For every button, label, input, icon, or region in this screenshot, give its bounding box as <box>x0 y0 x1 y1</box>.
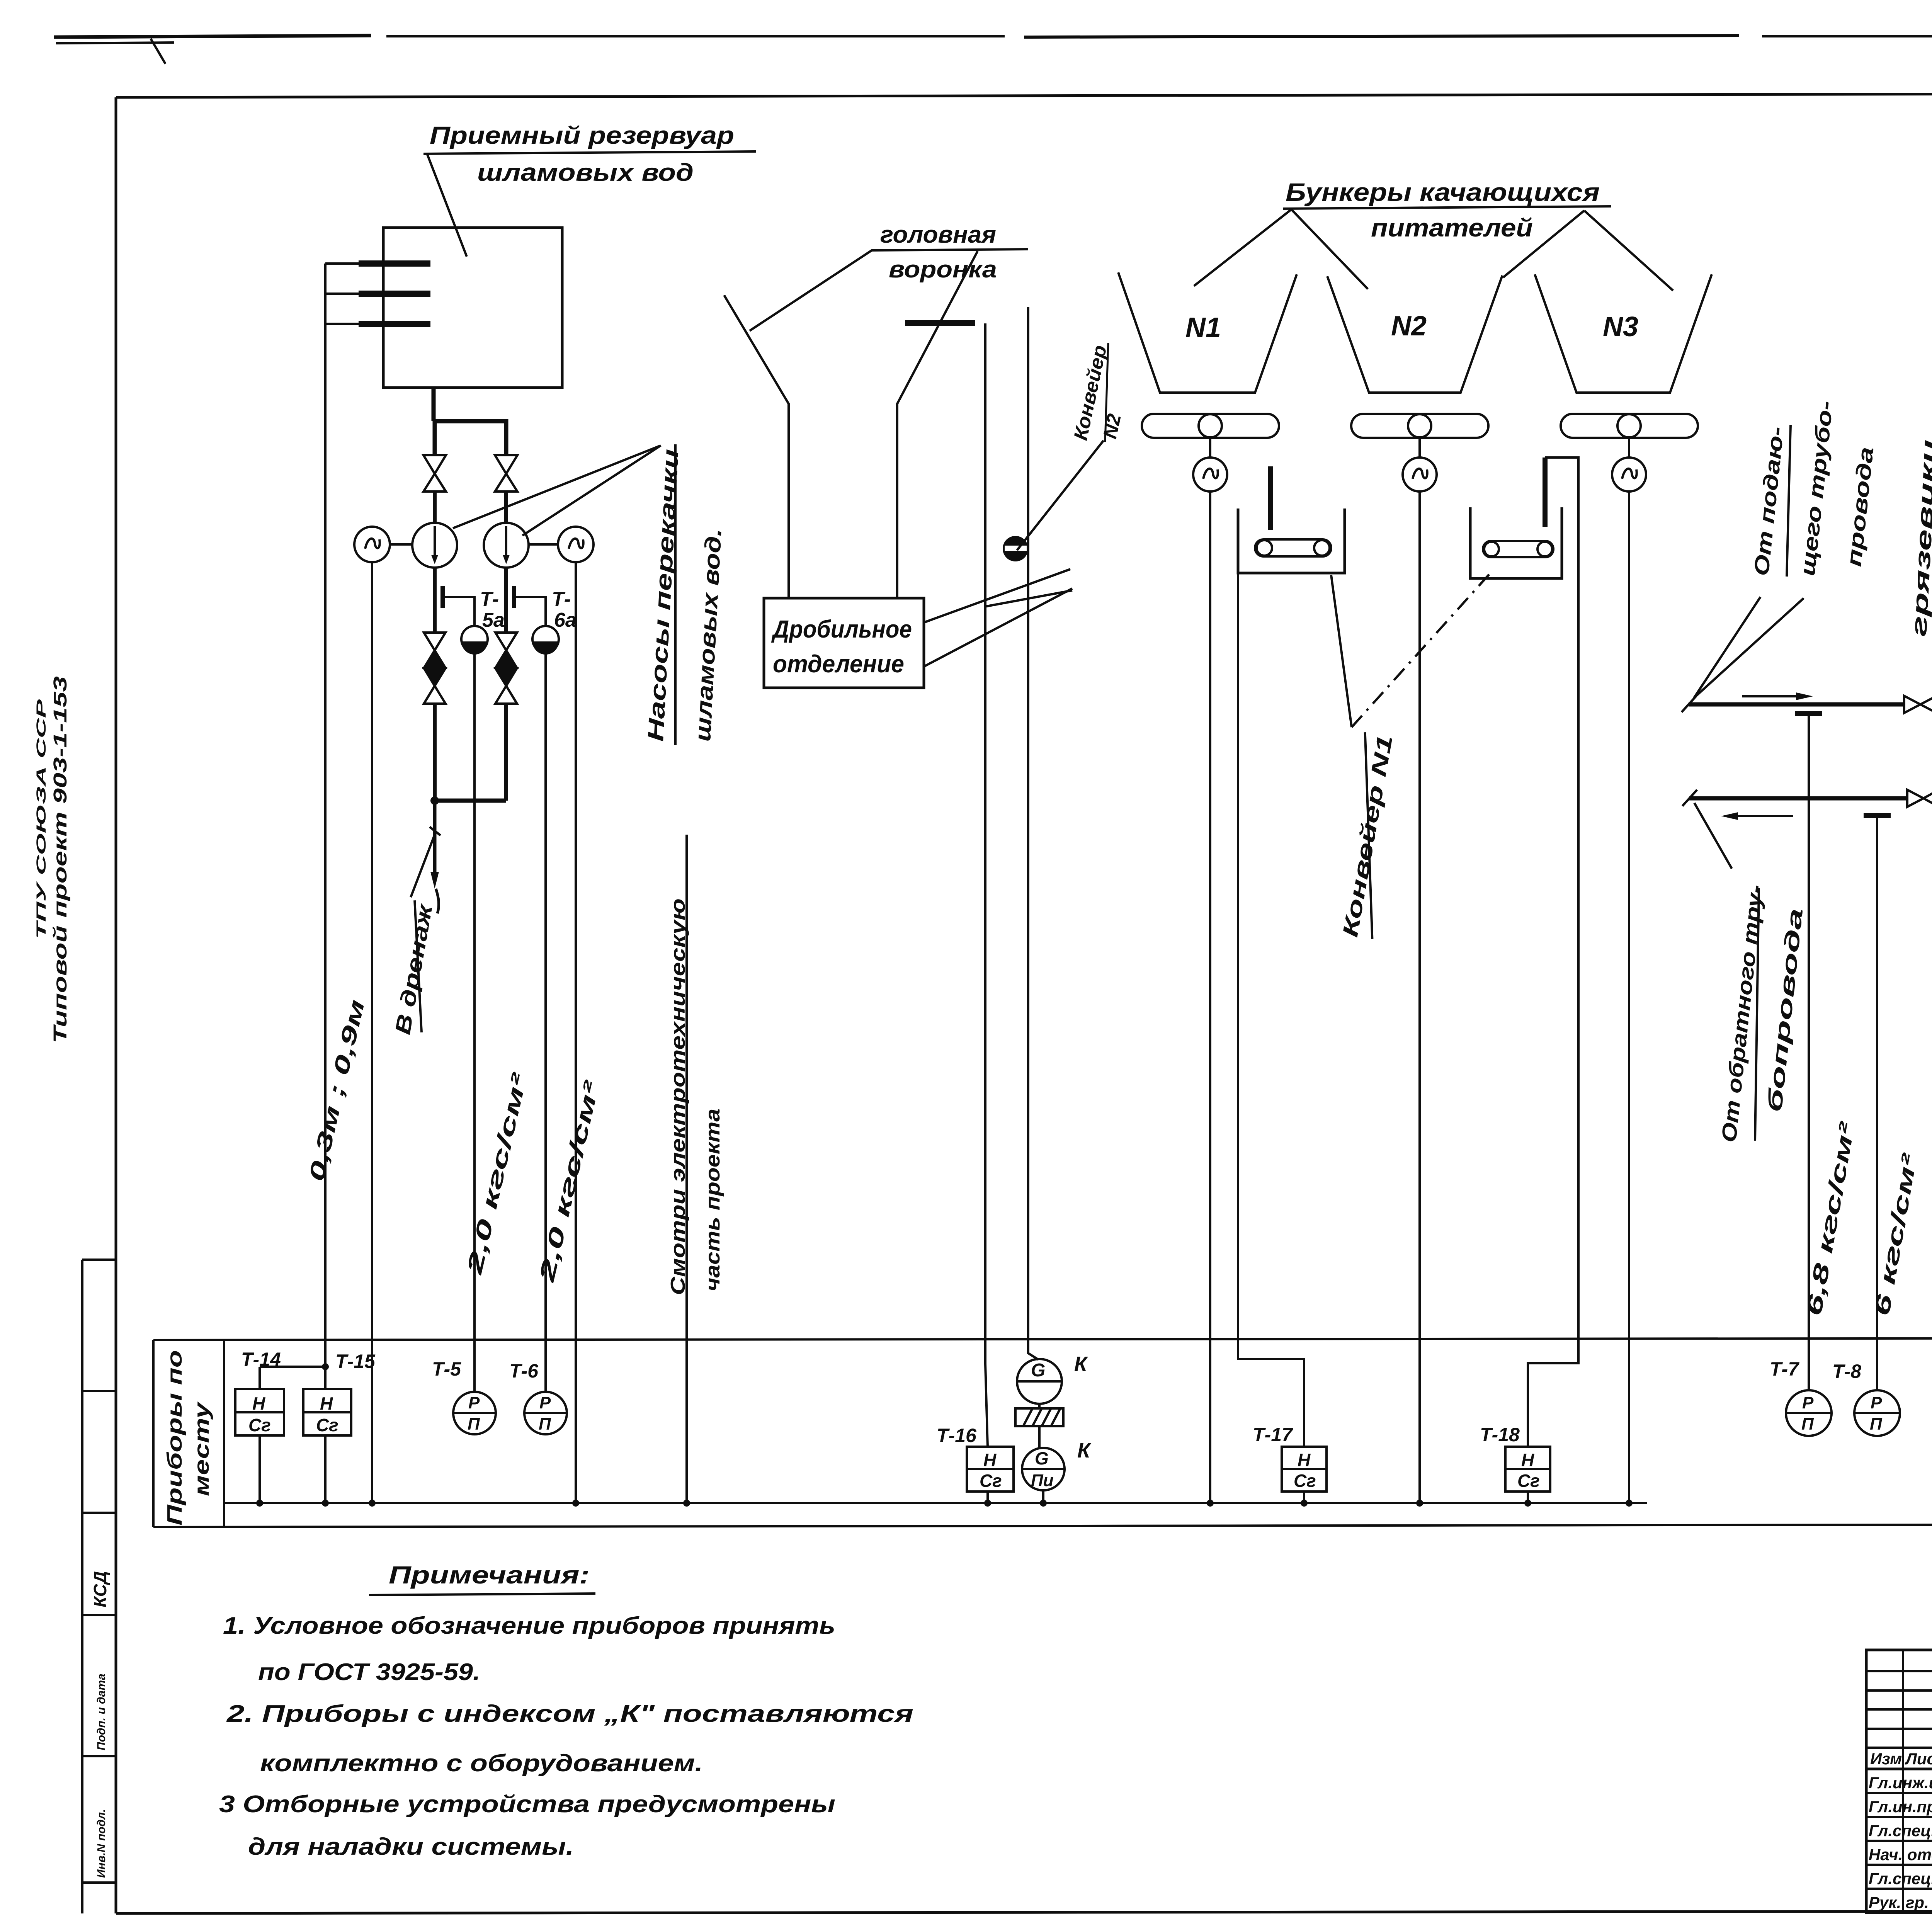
conveyor N1 leaders <box>1331 575 1352 727</box>
integrator hatch box <box>1015 1408 1063 1426</box>
svg-text:Н: Н <box>1521 1450 1534 1470</box>
level electrode bar 2 <box>359 291 430 297</box>
svg-text:П: П <box>468 1415 480 1434</box>
feeder 3 motor <box>1612 457 1646 492</box>
svg-text:Р: Р <box>539 1393 551 1412</box>
tap T-7 <box>1795 711 1822 716</box>
merge header <box>435 799 506 803</box>
svg-text:G: G <box>1035 1448 1049 1468</box>
belt weigher 2 signal line to T-18 <box>1528 457 1578 1447</box>
pressure bulb T-5a (half filled) <box>461 626 488 652</box>
svg-text:Т-8: Т-8 <box>1832 1361 1861 1382</box>
feeder 2 signal line <box>1418 492 1421 1503</box>
feeder 1 capsule <box>1142 414 1279 438</box>
label underline <box>674 444 677 745</box>
svg-text:для наладки системы.: для наладки системы. <box>248 1833 574 1860</box>
svg-text:G: G <box>1031 1360 1045 1381</box>
tap bar T-5a <box>440 586 445 608</box>
motor line bus dots <box>369 1500 376 1507</box>
svg-text:Т-7: Т-7 <box>1770 1358 1799 1380</box>
svg-text:Гл.инж.ик.: Гл.инж.ик. <box>1869 1774 1932 1792</box>
feeder 3 capsule <box>1561 414 1698 438</box>
gate valve supply main <box>1904 696 1932 713</box>
belt weigher 2 tank <box>1470 507 1562 578</box>
leader fan pumps <box>453 446 661 528</box>
svg-text:2. Приборы с индексом „: 2. Приборы с индексом „К" поставляются <box>226 1701 913 1727</box>
belt weigher 2 roller <box>1483 541 1553 557</box>
svg-text:Инв.N подл.: Инв.N подл. <box>95 1809 108 1878</box>
svg-text:Т-: Т- <box>480 588 499 611</box>
svg-text:Т-6: Т-6 <box>509 1360 539 1382</box>
tank outlet pipe <box>432 388 436 421</box>
motor M2 <box>558 527 594 562</box>
reservoir tank <box>383 228 562 388</box>
svg-text:К: К <box>1077 1439 1092 1462</box>
feeder 3 signal line <box>1628 492 1630 1503</box>
conveyor N2 chute line B <box>1028 307 1039 1360</box>
leader В дренаж <box>411 832 436 897</box>
svg-text:Т-5: Т-5 <box>432 1358 461 1380</box>
svg-text:Подп. и дата: Подп. и дата <box>95 1673 108 1750</box>
pipes valve to pumps <box>433 492 437 524</box>
bunker label leaders <box>1194 209 1673 291</box>
motor links <box>390 543 412 546</box>
supply start tick <box>1682 696 1696 712</box>
svg-text:Гл.спец.т.: Гл.спец.т. <box>1869 1821 1932 1840</box>
crusher leaders <box>924 569 1070 622</box>
belt weigher 1 drop bar <box>1268 466 1273 530</box>
motor signal lines to panel <box>371 562 373 1503</box>
tap T-8 <box>1864 813 1891 818</box>
tap bar T-6a <box>512 586 516 608</box>
svg-text:Сг: Сг <box>980 1471 1002 1491</box>
svg-text:П: П <box>539 1415 551 1434</box>
svg-text:Рук. гр.: Рук. гр. <box>1869 1893 1929 1912</box>
svg-text:Т-17: Т-17 <box>1253 1424 1293 1446</box>
svg-text:Дробильное: Дробильное <box>771 615 912 643</box>
junction dot <box>430 796 439 805</box>
drain pipe with arrow <box>433 801 437 876</box>
leader return label <box>1694 803 1732 869</box>
valve right suction <box>495 455 517 492</box>
svg-text:К: К <box>1074 1352 1088 1376</box>
left suction pipe <box>433 421 437 456</box>
feeder 2 capsule <box>1351 414 1488 438</box>
feeder bus dots <box>1207 1500 1214 1507</box>
signal bus <box>224 1502 1647 1504</box>
pump P1 <box>412 523 457 568</box>
svg-text:Т-14: Т-14 <box>241 1349 281 1370</box>
svg-text:1. Условное обозначение пр: 1. Условное обозначение приборов принять <box>223 1612 835 1639</box>
belt weigher 1 signal line to T-17 <box>1238 573 1304 1447</box>
svg-text:Н: Н <box>1298 1450 1311 1470</box>
svg-text:П: П <box>1870 1415 1883 1434</box>
svg-text:ТПУ СОЮЗА ССР: ТПУ СОЮЗА ССР <box>34 699 49 939</box>
label underline <box>423 151 756 154</box>
svg-text:Гл.спец.: Гл.спец. <box>1869 1869 1932 1888</box>
svg-text:Р: Р <box>468 1393 480 1412</box>
electro note line dot <box>683 1500 690 1507</box>
funnel walls <box>724 251 978 599</box>
feeder 1 motor <box>1193 457 1227 492</box>
svg-text:Н: Н <box>983 1450 997 1470</box>
crossing tick on drain <box>430 827 440 835</box>
valve left suction <box>423 455 446 492</box>
gate valve return main <box>1907 790 1932 807</box>
svg-text:Р: Р <box>1802 1393 1814 1412</box>
belt weigher 1 tank <box>1238 509 1345 573</box>
level electrode bar 1 <box>359 260 430 267</box>
return start tick <box>1682 790 1697 806</box>
feeder 2 motor <box>1403 457 1437 492</box>
svg-text:Н: Н <box>252 1393 265 1413</box>
svg-text:Сг: Сг <box>1517 1471 1540 1491</box>
pump P2 <box>484 523 529 568</box>
svg-text:Изм: Изм <box>1870 1750 1902 1768</box>
svg-text:Типовой проект 903-1-153: Типовой проект 903-1-153 <box>50 676 71 1043</box>
svg-text:N3: N3 <box>1603 311 1638 342</box>
svg-text:питателей: питателей <box>1371 213 1533 242</box>
svg-text:Приборы по: Приборы по <box>163 1350 186 1526</box>
return main <box>1689 796 1907 801</box>
svg-text:5а: 5а <box>482 609 505 631</box>
svg-text:Сг: Сг <box>316 1415 338 1435</box>
svg-text:Т-18: Т-18 <box>1480 1424 1520 1446</box>
pressure bulb T-6a (half filled) <box>532 626 559 652</box>
svg-text:N2: N2 <box>1391 311 1427 342</box>
svg-text:Т-: Т- <box>552 588 571 611</box>
belt weigher 1 roller <box>1255 539 1331 556</box>
discharge pipes to merge <box>433 704 437 801</box>
svg-text:отделение: отделение <box>773 650 904 678</box>
svg-text:воронка: воронка <box>889 256 997 283</box>
feeder 1 signal line <box>1209 492 1211 1503</box>
conveyor N2 chute line A <box>985 323 988 1447</box>
svg-text:Сг: Сг <box>1294 1471 1316 1491</box>
leaders supply label <box>1694 597 1760 698</box>
svg-text:по ГОСТ 3925-59.: по ГОСТ 3925-59. <box>258 1659 480 1685</box>
flow gate (black disc) on conveyor <box>1003 536 1028 561</box>
T-14 / T-15 connection <box>260 1366 325 1368</box>
bunker N1 <box>1118 272 1297 393</box>
svg-text:Гл.ин.пр.: Гл.ин.пр. <box>1869 1798 1932 1816</box>
svg-text:часть проекта: часть проекта <box>702 1109 724 1291</box>
svg-text:Лист: Лист <box>1905 1750 1932 1768</box>
svg-text:Нач. отд: Нач. отд <box>1869 1845 1932 1864</box>
belt weigher 2 drop bar <box>1543 457 1548 527</box>
svg-text:П: П <box>1801 1415 1814 1434</box>
svg-text:3 Отборные устройства преду: 3 Отборные устройства предусмотрены <box>219 1791 835 1818</box>
bunker N3 <box>1535 274 1712 393</box>
svg-text:Н: Н <box>320 1393 333 1413</box>
svg-text:Т-15: Т-15 <box>335 1350 376 1372</box>
svg-text:головная: головная <box>880 221 996 248</box>
svg-text:Приемный резервуар: Приемный резервуар <box>430 121 734 149</box>
level sensor stub wires <box>325 264 359 324</box>
svg-text:N1: N1 <box>1185 312 1221 343</box>
conveyor label leaders <box>1017 440 1104 550</box>
tee to right branch <box>434 421 506 456</box>
supply main <box>1689 702 1904 707</box>
return flow arrow <box>1738 815 1793 817</box>
svg-text:Р: Р <box>1871 1393 1882 1412</box>
flow meter G (K) <box>1017 1359 1062 1404</box>
svg-text:комплектно с оборудованием: комплектно с оборудованием. <box>260 1750 703 1777</box>
bunker N2 <box>1327 276 1502 393</box>
svg-text:Примечания:: Примечания: <box>389 1561 590 1589</box>
check+gate valves left <box>424 633 446 704</box>
svg-text:месту: месту <box>190 1401 213 1496</box>
svg-text:шламовых вод: шламовых вод <box>477 158 694 186</box>
left stamp column <box>82 1260 116 1913</box>
motor M1 <box>354 527 390 562</box>
svg-text:Т-16: Т-16 <box>937 1425 977 1446</box>
pen slash top-left <box>151 39 165 64</box>
svg-text:Бункеры качающихся: Бункеры качающихся <box>1286 178 1600 206</box>
svg-text:6а: 6а <box>554 609 577 631</box>
pump discharge pipes <box>433 568 437 634</box>
level signal line down to T-14/T-15 <box>324 264 327 1367</box>
level electrode bar 3 <box>359 321 430 327</box>
leader to funnel <box>750 250 872 331</box>
leader to reservoir <box>427 155 467 257</box>
crusher top bar <box>905 320 975 326</box>
svg-text:КСД: КСД <box>90 1571 110 1607</box>
svg-text:Сг: Сг <box>248 1415 271 1435</box>
crusher box Дробильное отделение <box>764 598 924 688</box>
supply flow arrow <box>1742 695 1796 697</box>
check+gate valves right <box>495 633 517 704</box>
flow recorder G/Пи (K) <box>1022 1448 1065 1490</box>
sheet top border <box>54 35 1932 64</box>
svg-text:Пи: Пи <box>1031 1471 1054 1490</box>
